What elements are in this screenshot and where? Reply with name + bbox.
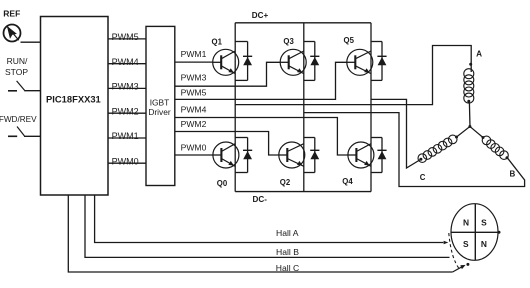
svg-text:PWM2: PWM2 [181,119,207,129]
svg-text:Q3: Q3 [283,37,294,46]
svg-text:PWM0: PWM0 [181,142,207,152]
svg-text:IGBT: IGBT [150,97,170,107]
svg-text:Q5: Q5 [344,36,355,45]
svg-text:FWD/REV: FWD/REV [0,115,37,124]
svg-text:Q0: Q0 [217,179,228,188]
svg-text:DC+: DC+ [252,11,269,20]
svg-text:A: A [476,49,482,58]
svg-text:Driver: Driver [148,107,171,117]
svg-text:S: S [481,218,487,228]
svg-text:PWM3: PWM3 [181,73,207,83]
svg-text:S: S [463,239,469,249]
svg-text:Q4: Q4 [342,177,353,186]
svg-text:PWM0: PWM0 [112,156,139,166]
svg-text:PWM5: PWM5 [181,88,207,98]
svg-text:B: B [510,170,516,179]
svg-text:Q2: Q2 [280,178,291,187]
svg-text:C: C [420,173,426,182]
svg-text:PWM1: PWM1 [112,131,139,141]
svg-text:RUN/: RUN/ [7,56,28,66]
svg-text:Hall A: Hall A [276,228,299,238]
svg-text:REF: REF [3,8,20,18]
svg-text:N: N [481,239,487,249]
svg-text:PWM4: PWM4 [181,105,207,115]
svg-text:PWM2: PWM2 [112,106,139,116]
svg-text:N: N [463,218,469,228]
svg-text:Hall C: Hall C [276,263,299,273]
svg-text:PWM3: PWM3 [112,82,139,92]
svg-text:STOP: STOP [5,67,28,77]
svg-text:Q1: Q1 [212,38,223,47]
svg-text:PWM5: PWM5 [112,32,139,42]
svg-text:DC-: DC- [253,195,268,204]
svg-text:PWM4: PWM4 [112,57,139,67]
svg-text:PWM1: PWM1 [181,49,207,59]
svg-text:PIC18FXX31: PIC18FXX31 [46,93,101,104]
svg-text:Hall B: Hall B [276,247,299,257]
